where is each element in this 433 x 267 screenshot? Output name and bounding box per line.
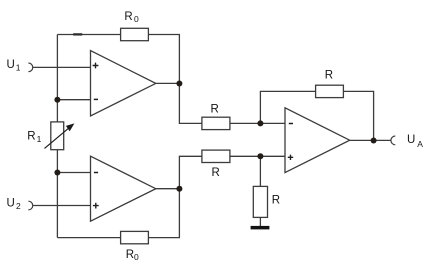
svg-text:R: R: [272, 195, 280, 207]
svg-text:1: 1: [16, 62, 21, 72]
svg-text:R: R: [325, 70, 333, 82]
svg-text:2: 2: [16, 201, 21, 211]
svg-text:0: 0: [134, 252, 139, 262]
svg-text:U: U: [407, 134, 415, 146]
svg-text:R: R: [124, 11, 132, 23]
svg-text:R: R: [126, 249, 134, 261]
svg-text:1: 1: [37, 134, 42, 144]
svg-text:U: U: [7, 59, 15, 71]
svg-text:R: R: [212, 167, 220, 179]
svg-text:R: R: [211, 103, 219, 115]
svg-text:U: U: [7, 197, 15, 209]
svg-text:0: 0: [134, 14, 139, 24]
svg-text:R: R: [27, 131, 35, 143]
svg-text:A: A: [417, 139, 423, 149]
